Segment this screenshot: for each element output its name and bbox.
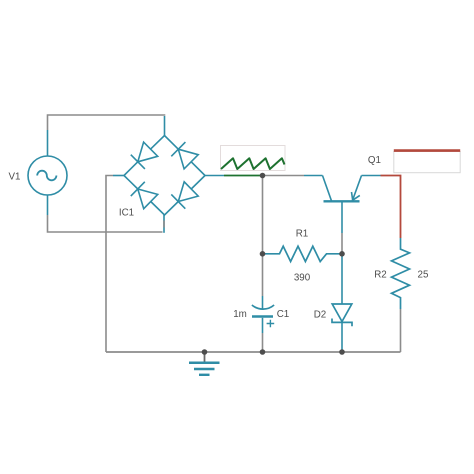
svg-text:C1: C1 <box>277 309 290 320</box>
wire <box>341 233 343 254</box>
bridge diode bottom-right <box>171 182 198 209</box>
resistor R1 <box>263 246 343 261</box>
wire <box>224 175 263 177</box>
value 1m <box>233 309 247 320</box>
wire <box>381 176 401 239</box>
label R2 <box>374 270 387 281</box>
svg-text:R1: R1 <box>296 229 309 240</box>
junction node <box>339 251 345 257</box>
wire <box>304 175 323 177</box>
wire <box>113 175 124 177</box>
voltage source V1 <box>28 156 67 195</box>
junction node <box>339 349 345 355</box>
wire <box>106 351 401 353</box>
svg-text:Q1: Q1 <box>368 155 381 166</box>
bridge rectifier IC1 <box>124 136 205 216</box>
wire <box>400 309 402 352</box>
wire <box>48 215 163 232</box>
transistor Q1 <box>323 176 362 234</box>
svg-text:1m: 1m <box>233 309 247 320</box>
zener diode D2 <box>332 254 352 352</box>
junction node <box>202 349 208 355</box>
capacitor C1 <box>252 296 274 333</box>
wire <box>205 175 224 177</box>
wire <box>262 333 264 352</box>
junction node <box>260 349 266 355</box>
svg-text:R2: R2 <box>374 270 387 281</box>
ground <box>189 352 220 375</box>
wire <box>262 176 264 297</box>
wire <box>163 215 165 233</box>
wire <box>47 130 49 156</box>
label R1 <box>296 229 309 240</box>
bridge diode top-left <box>131 142 158 169</box>
waveform probe display (green sawtooth) <box>221 146 286 171</box>
label D2 <box>314 309 327 320</box>
bridge diode top-right <box>171 142 198 169</box>
label IC1 <box>119 208 134 219</box>
wire <box>263 175 305 177</box>
svg-text:V1: V1 <box>9 172 21 183</box>
label V1 <box>9 172 21 183</box>
svg-text:25: 25 <box>418 270 429 281</box>
waveform probe display (red flat trace) <box>394 151 460 173</box>
bridge diode bottom-left <box>131 182 158 209</box>
svg-text:D2: D2 <box>314 309 327 320</box>
value 25 <box>418 270 429 281</box>
svg-text:390: 390 <box>294 272 311 283</box>
wire <box>106 176 113 353</box>
junction node <box>260 251 266 257</box>
wire <box>48 115 166 130</box>
label Q1 <box>368 155 381 166</box>
wire <box>47 195 49 215</box>
resistor R2 <box>392 238 410 309</box>
wire <box>164 116 166 136</box>
svg-text:IC1: IC1 <box>119 208 134 219</box>
value 390 <box>294 272 311 283</box>
label C1 <box>277 309 290 320</box>
wire <box>362 175 381 177</box>
junction node <box>260 173 266 179</box>
